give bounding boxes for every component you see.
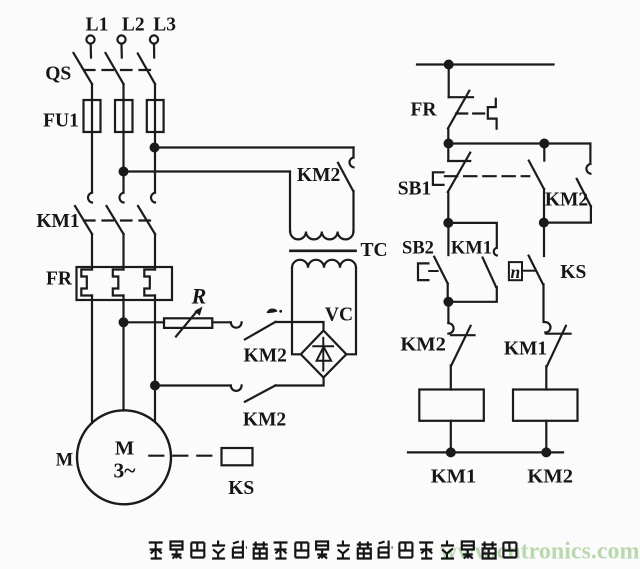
contactor KM1 aux fixed contact	[494, 248, 497, 256]
wire KM1 coil to bottom rail	[450, 421, 452, 453]
contactor KM1 aux blade	[483, 258, 496, 287]
svg-text:VC: VC	[325, 305, 353, 326]
switch QS pole 2 blade	[106, 53, 124, 84]
wire bottom rail	[408, 451, 563, 453]
wire tap L3 to TC branch	[155, 146, 354, 148]
KS dashed link	[524, 270, 536, 272]
contactor KM2 NC blade	[451, 326, 470, 366]
fuse FU1 pole 1	[84, 100, 101, 132]
pushbutton SB1 NC blade	[448, 153, 470, 192]
wire rail2 right end down	[589, 144, 591, 164]
FR heater element pole 1	[81, 270, 92, 296]
QS linkage dashed	[84, 69, 151, 71]
node L3 terminal	[150, 35, 158, 43]
wire pole3 to KM2 contact 2	[155, 384, 231, 386]
svg-text:KS: KS	[228, 478, 254, 499]
wire control rail 2	[448, 142, 590, 144]
svg-text:KM1: KM1	[504, 339, 547, 360]
wire KM2 to TC primary right	[352, 191, 354, 232]
wire L1 stem	[90, 44, 93, 58]
svg-text:FR: FR	[411, 100, 438, 121]
contactor KM2 braking contact 1 fixed	[231, 322, 242, 327]
contactor KM2 TC contact blade	[338, 163, 353, 191]
svg-text:n: n	[511, 262, 521, 282]
svg-text:KM1: KM1	[451, 239, 492, 259]
FR thermal actuator dashed link	[456, 112, 484, 114]
wire TC primary left lead	[289, 172, 291, 232]
motor M circle	[77, 410, 171, 504]
contactor KM1 NC stop bar	[546, 333, 571, 335]
node junction KM2 branch mid	[540, 219, 548, 227]
wire QS to FU1 pole 1	[91, 84, 93, 100]
contactor KM1 pole 1 blade	[75, 206, 92, 234]
dashed link motor to KS	[149, 455, 213, 457]
speed relay KS contact blade	[529, 256, 543, 285]
svg-text:KM1: KM1	[36, 211, 79, 232]
coil KM1	[419, 390, 484, 421]
node junction rail2 KM2 branch	[540, 140, 548, 148]
wire R to KM2 contact	[212, 321, 230, 323]
wire KM1 aux down	[448, 287, 496, 302]
node L2 terminal	[117, 35, 125, 43]
wire KS down	[542, 284, 544, 322]
wire rail2 to SB1	[447, 144, 449, 162]
svg-text:L1: L1	[86, 15, 109, 36]
svg-text:L2: L2	[122, 15, 145, 36]
svg-text:KM2: KM2	[244, 346, 287, 367]
caption simulated CJK text	[149, 541, 517, 559]
wire KM1 to FR pole 3	[154, 234, 156, 270]
contactor KM1 pole 2 blade	[107, 206, 124, 234]
contactor KM2 self-hold fixed contact	[586, 164, 590, 174]
wire rail2 to KM2 branch	[543, 144, 545, 161]
coil KM2	[513, 390, 578, 421]
node junction bottom rail KM2	[542, 449, 550, 457]
switch QS pole 1 blade	[74, 53, 93, 84]
wire loop top to KM1 aux	[448, 223, 497, 248]
KS actuator n box	[509, 262, 522, 280]
wire SB1 to node	[447, 192, 449, 223]
contactor KM2 braking contact 1 blade	[245, 322, 276, 340]
contactor KM2 NC fixed contact hook	[448, 323, 453, 333]
contactor KM1 pole 1 fixed contact	[88, 193, 92, 203]
thermal relay FR box	[77, 267, 173, 300]
wire rail to FR contact	[448, 65, 450, 98]
node L1 terminal	[86, 35, 94, 43]
transformer TC secondary winding	[292, 260, 356, 268]
wire fuse internal pole 2	[122, 100, 124, 193]
pushbutton SB1 cap	[433, 172, 444, 185]
svg-text:R: R	[191, 284, 207, 309]
svg-text:KM1: KM1	[431, 466, 477, 488]
contactor KM1 NC fixed contact hook	[545, 322, 550, 332]
wire SB2 down	[447, 284, 449, 302]
KM1 linkage dashed	[84, 219, 150, 221]
resistor R arrow	[176, 311, 198, 337]
svg-text:M: M	[115, 438, 134, 460]
rectifier VC bridge diamond	[301, 331, 347, 378]
diode VC axis	[322, 338, 324, 371]
resistor R body	[164, 318, 212, 328]
svg-text:L3: L3	[153, 15, 176, 36]
wire FR to motor pole 3	[154, 296, 156, 422]
SB1 linkage dashed to KM2 NO blade	[445, 175, 529, 177]
svg-text:QS: QS	[45, 64, 71, 85]
svg-text:M: M	[56, 451, 73, 471]
contactor KM2 NC stop bar	[451, 334, 475, 336]
wire tap L2 to TC primary left	[124, 170, 291, 172]
contactor KM1 NC blade	[547, 326, 566, 366]
FR heater element pole 3	[144, 270, 155, 296]
FR NC contact stub	[449, 96, 473, 98]
node junction L2 tap	[120, 168, 128, 176]
fuse FU1 pole 2	[115, 100, 133, 132]
SB1 NO contact blade (KM2 branch)	[529, 161, 544, 189]
wire KM1 to FR pole 1	[91, 234, 93, 270]
wire control top rail	[417, 63, 554, 65]
contactor KM1 pole 3 fixed contact	[151, 193, 155, 203]
stray arrow mark	[267, 309, 278, 314]
node junction L3 tap	[151, 144, 159, 152]
node junction rail2 left	[445, 140, 453, 148]
wire KM1 to FR pole 2	[122, 234, 124, 270]
wire FR to motor pole 2	[122, 296, 124, 411]
contactor KM2 braking contact 2 blade	[245, 385, 276, 401]
wire KM2 coil to bottom rail	[545, 421, 547, 453]
wire L2 stem	[120, 44, 123, 58]
wire node to KM2 NC	[447, 302, 449, 323]
svg-text:SB1: SB1	[398, 179, 432, 200]
svg-text:SB2: SB2	[402, 239, 434, 259]
contactor KM2 self-hold blade	[577, 179, 591, 207]
FR thermal actuator symbol	[488, 99, 497, 129]
svg-text:KM2: KM2	[243, 410, 286, 431]
wire KM2 contact 2 to bridge bottom	[276, 377, 324, 386]
wire L3 stem	[153, 44, 155, 58]
wire fuse internal pole 1	[91, 100, 93, 193]
svg-text:KS: KS	[560, 262, 586, 283]
wire fuse internal pole 3	[154, 100, 156, 193]
pushbutton SB2 cap	[418, 263, 428, 280]
node junction top rail	[445, 61, 453, 69]
contactor KM1 pole 2 fixed contact	[119, 193, 123, 203]
diode VC cathode bar	[313, 345, 333, 347]
wire FR to motor pole 1	[91, 296, 93, 424]
node junction SB2 branch bottom	[445, 298, 453, 306]
svg-text:3~: 3~	[114, 459, 137, 483]
node junction R tap on pole 2	[120, 318, 128, 326]
node junction SB2 branch top	[444, 219, 452, 227]
transformer TC core	[291, 249, 356, 252]
svg-text:FU1: FU1	[43, 111, 79, 132]
pushbutton SB1 NC stub	[448, 160, 470, 162]
wire KM1 NC to KM2 coil	[545, 366, 547, 389]
pushbutton SB2 blade	[434, 257, 448, 284]
wire KM2 self-hold down	[544, 206, 591, 222]
svg-text:FR: FR	[46, 269, 73, 290]
fuse FU1 pole 3	[147, 100, 164, 132]
node junction pole3 braking tap	[151, 382, 159, 390]
svg-text:KM2: KM2	[527, 466, 573, 488]
transformer TC primary winding	[290, 232, 353, 240]
wire SB1 NO down	[543, 189, 545, 223]
wire KM2 contact 1 to bridge top	[276, 322, 324, 331]
wire QS to FU1 pole 2	[122, 84, 124, 100]
contactor KM1 pole 3 blade	[138, 206, 155, 234]
wire TC secondary right lead	[347, 268, 357, 355]
node junction bottom rail KM1	[447, 449, 455, 457]
svg-text:TC: TC	[360, 240, 387, 261]
wire QS to FU1 pole 3	[154, 84, 156, 100]
speed relay KS box	[222, 448, 253, 465]
pushbutton SB2 wire top	[447, 223, 449, 255]
wire TC secondary left lead	[292, 268, 301, 355]
wire pole2 to resistor R	[124, 321, 165, 323]
svg-text:KM2: KM2	[545, 190, 588, 211]
svg-text:KM2: KM2	[297, 165, 340, 186]
SB2 dashed link	[429, 270, 437, 272]
wire node to KS contact	[543, 223, 545, 256]
FR NC contact wire down	[447, 128, 449, 143]
contactor KM2 braking contact 2 fixed	[231, 386, 242, 391]
svg-text:KM2: KM2	[400, 334, 446, 356]
wire KM2 NC to KM1 coil	[450, 365, 452, 389]
wire TC branch down	[352, 148, 354, 158]
contactor KM2 TC contact fixed	[349, 158, 353, 168]
FR heater element pole 2	[113, 270, 124, 296]
diode VC triangle	[317, 347, 332, 361]
switch QS pole 3 blade	[138, 54, 155, 85]
FR NC contact blade	[448, 91, 469, 129]
